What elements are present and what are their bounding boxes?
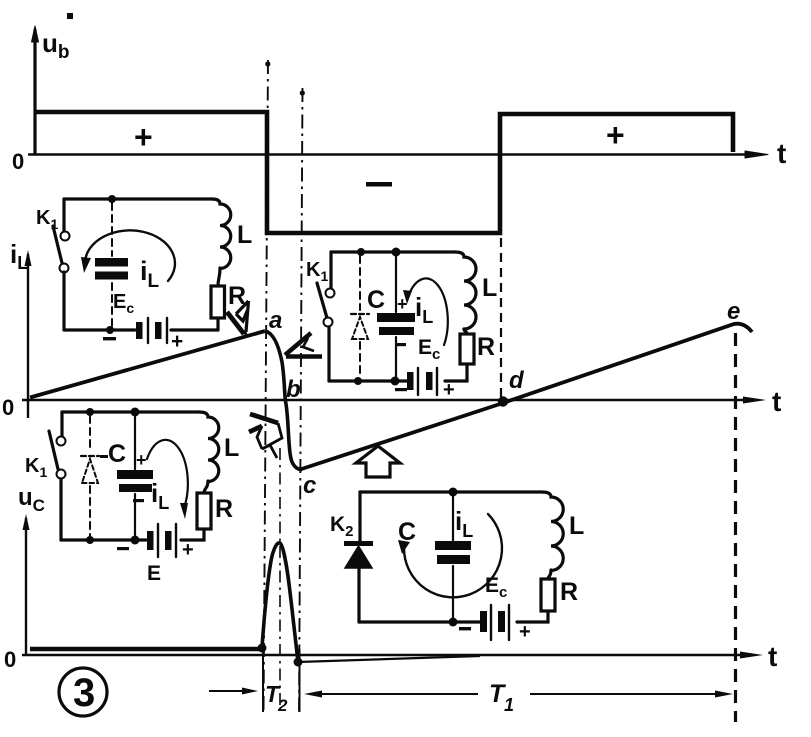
- capacitor branch wire: [395, 252, 397, 381]
- battery Ec plates (circuit 4): [491, 605, 509, 640]
- svg-text:L: L: [224, 434, 239, 462]
- label minus (battery circuit 3): [117, 547, 129, 550]
- wire bottom right to R: [171, 328, 218, 331]
- wire left upper: [358, 492, 361, 543]
- wire coil to R: [204, 481, 208, 493]
- prime dot: [67, 13, 73, 19]
- svg-text:R: R: [228, 282, 246, 310]
- waveform u_b square wave: [35, 112, 733, 233]
- dash-dot reference line left (x=266): [264, 60, 269, 713]
- svg-text:L: L: [237, 221, 252, 249]
- axis i_L vertical: [27, 254, 29, 418]
- svg-text:0: 0: [4, 647, 16, 672]
- switch K1 (circuit 3): [57, 437, 66, 446]
- node dots bottom: [86, 536, 94, 544]
- wire left lower: [59, 479, 62, 540]
- resistor R (circuit 3): [197, 493, 211, 529]
- battery E plates (circuit 3): [158, 524, 176, 557]
- svg-text:+: +: [171, 330, 183, 353]
- svg-text:+: +: [136, 450, 147, 470]
- waveform i_L ramp c to e with end hook: [300, 324, 752, 470]
- node dot top: [449, 488, 458, 497]
- capacitor branch wire: [134, 412, 136, 540]
- svg-text:L: L: [482, 274, 497, 302]
- wire left lower: [357, 568, 360, 622]
- capacitor C plates (circuit 1): [95, 258, 128, 267]
- capacitor C plates (circuit 4): [435, 541, 471, 550]
- battery Ec plates (circuit 1): [148, 318, 167, 343]
- capacitor branch dashed wires: [111, 203, 113, 326]
- axis u_b vertical: [33, 30, 36, 154]
- svg-text:e: e: [727, 298, 740, 325]
- waveform i_L fall a to c: [265, 331, 302, 470]
- svg-text:+: +: [182, 539, 194, 561]
- current loop (circuit 2): [408, 278, 448, 345]
- wire bottom: [329, 364, 467, 381]
- wire coil to R: [218, 268, 220, 286]
- svg-text:a: a: [269, 307, 282, 334]
- svg-text:3: 3: [73, 671, 95, 715]
- svg-text:2: 2: [277, 696, 288, 715]
- minus under plates: [395, 343, 406, 346]
- svg-text:0: 0: [12, 149, 24, 174]
- svg-text:c: c: [303, 472, 316, 499]
- wire bottom left: [64, 328, 135, 331]
- current loop arrow (circuit 4): [404, 514, 502, 597]
- dashed line at d (x=501): [500, 238, 502, 400]
- wire left lower: [327, 327, 330, 381]
- waveform u_C recovery line: [298, 656, 480, 662]
- wire left upper: [329, 252, 332, 288]
- label minus (battery circuit 2): [395, 388, 407, 391]
- svg-text:E: E: [147, 562, 161, 585]
- capacitor C plates (circuit 3): [117, 470, 153, 479]
- svg-text:+: +: [397, 294, 408, 314]
- wire top (circuit 4): [360, 490, 542, 493]
- node bottom junction dot: [106, 326, 114, 334]
- waveform u_C baseline: [30, 647, 262, 651]
- axis u_C vertical: [25, 518, 27, 655]
- svg-text:C: C: [367, 286, 385, 314]
- svg-text:+: +: [134, 119, 153, 155]
- dash-dot pulse center line (x=280): [279, 448, 281, 710]
- dash-dot line top dot right: [300, 90, 305, 95]
- tick T2 left: [262, 644, 264, 712]
- node dot bottom: [449, 618, 458, 627]
- svg-text:t: t: [768, 641, 777, 672]
- tick T2 right: [299, 649, 301, 712]
- node top junction dot: [108, 195, 116, 203]
- svg-text:R: R: [215, 495, 233, 523]
- capacitor branch wire: [452, 492, 454, 622]
- svg-text:0: 0: [2, 395, 14, 420]
- inductor L coil (circuit 4): [542, 492, 563, 571]
- axis u_C horizontal: [22, 654, 752, 656]
- minus sign negative pulse: [366, 182, 392, 187]
- wire coil to R: [464, 329, 467, 334]
- switch K1 (circuit 2): [326, 289, 335, 298]
- dash-dot line top dot left: [265, 61, 270, 66]
- wire left lower: [62, 272, 65, 330]
- inductor L coil (circuit 2): [455, 252, 476, 329]
- svg-text:d: d: [509, 367, 525, 394]
- wire bottom: [61, 529, 204, 540]
- node d dot: [498, 396, 508, 406]
- wire bottom: [359, 611, 548, 622]
- wire top (circuit 2): [331, 250, 455, 253]
- svg-text:+: +: [606, 117, 625, 153]
- diode D (circuit 4) cathode bar: [344, 541, 373, 546]
- wire R to bottom: [216, 318, 219, 330]
- svg-text:C: C: [398, 518, 416, 546]
- dashed diode branch (circuit 2): [359, 256, 361, 377]
- axis i_L horizontal: [22, 399, 755, 401]
- svg-text:b: b: [286, 376, 301, 403]
- hollow arrow 4 block up at ramp: [356, 446, 400, 477]
- hollow arrow 3 below b: [249, 414, 282, 458]
- label minus (battery circuit 4): [459, 627, 471, 630]
- node dots top: [357, 248, 365, 256]
- resistor R (circuit 2): [460, 334, 474, 364]
- wire left upper: [62, 199, 65, 231]
- node dots bottom: [354, 377, 362, 385]
- inductor L coil (circuit 3): [199, 412, 219, 482]
- wire top (circuit 1): [64, 197, 212, 200]
- wire left upper: [60, 412, 63, 436]
- battery minus sign: [103, 337, 116, 340]
- arrow into T2 from left: [209, 690, 248, 692]
- resistor R (circuit 4): [541, 579, 555, 611]
- figure number circle 3: [59, 668, 107, 716]
- node pulse start dot: [258, 644, 267, 653]
- dash to C label: [100, 455, 108, 458]
- svg-text:L: L: [569, 512, 584, 540]
- wire top (circuit 3): [62, 410, 199, 413]
- battery Ec plates (circuit 2): [418, 368, 437, 395]
- svg-text:t: t: [772, 386, 781, 417]
- svg-text:C: C: [108, 440, 126, 468]
- svg-text:t: t: [777, 138, 786, 169]
- node dots top: [86, 408, 94, 416]
- svg-text:R: R: [560, 578, 578, 606]
- svg-text:+: +: [519, 621, 531, 643]
- hollow arrow 1 at a: [227, 301, 249, 334]
- capacitor C plates (circuit 2): [377, 313, 415, 322]
- dashed diode branch (circuit 3): [89, 416, 91, 536]
- waveform u_C pulse: [262, 543, 298, 662]
- resistor R (circuit 1): [211, 286, 225, 318]
- svg-text:R: R: [477, 333, 495, 361]
- dimension line T1 with arrows: [313, 693, 478, 695]
- svg-text:+: +: [443, 379, 455, 401]
- minus under plates: [133, 499, 144, 502]
- hollow arrow 2 at b: [285, 333, 322, 357]
- current loop arc with arrowhead: [85, 230, 175, 281]
- current loop (circuit 3): [147, 440, 188, 508]
- dash-dot reference line right (x=301): [299, 88, 303, 713]
- node pulse end dot: [294, 658, 303, 667]
- diode D triangle: [345, 546, 372, 568]
- axis u_b horizontal with t arrow: [29, 153, 757, 155]
- dashed line at e (x=735): [734, 333, 737, 722]
- waveform i_L ramp 0 to a: [30, 331, 265, 398]
- inductor L coil (circuit 1): [212, 199, 231, 269]
- wire coil to R: [548, 570, 551, 579]
- svg-text:1: 1: [504, 695, 514, 715]
- switch K1 contacts and blade: [61, 232, 70, 241]
